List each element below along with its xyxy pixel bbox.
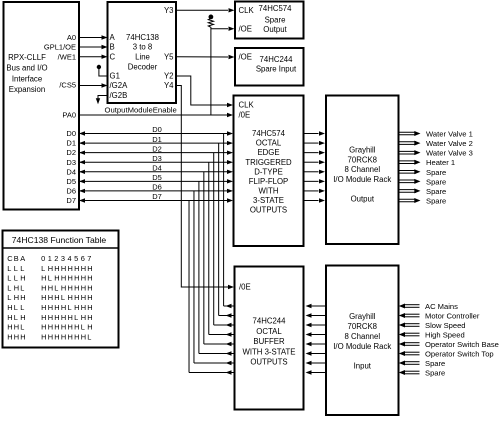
svg-text:/CS5: /CS5 — [59, 80, 76, 89]
svg-text:HHH: HHH — [7, 332, 25, 341]
svg-text:74HC244: 74HC244 — [260, 55, 294, 64]
svg-text:Slow Speed: Slow Speed — [425, 321, 466, 330]
svg-text:Spare: Spare — [425, 359, 445, 368]
svg-text:A0: A0 — [67, 33, 76, 42]
svg-text:OUTPUTS: OUTPUTS — [250, 358, 287, 367]
svg-text:Input: Input — [354, 362, 372, 371]
svg-text:D0: D0 — [152, 125, 162, 134]
svg-text:OCTAL: OCTAL — [256, 327, 282, 336]
svg-text:Y3: Y3 — [164, 6, 174, 15]
svg-text:BUFFER: BUFFER — [253, 337, 285, 346]
svg-text:Decoder: Decoder — [128, 62, 158, 71]
svg-text:70RCK8: 70RCK8 — [348, 155, 377, 164]
svg-text:Y5: Y5 — [164, 52, 174, 61]
svg-text:High Speed: High Speed — [425, 331, 465, 340]
svg-text:Grayhill: Grayhill — [349, 146, 376, 155]
svg-text:RPX-CLLF: RPX-CLLF — [8, 53, 46, 62]
svg-text:OUTPUTS: OUTPUTS — [250, 206, 287, 215]
svg-text:70RCK8: 70RCK8 — [348, 322, 377, 331]
svg-text:74HC138 Function Table: 74HC138 Function Table — [12, 235, 107, 245]
svg-text:EDGE: EDGE — [257, 148, 279, 157]
svg-text:Spare: Spare — [265, 15, 286, 24]
svg-text:TRIGGERED: TRIGGERED — [245, 158, 292, 167]
svg-text:CBA: CBA — [7, 254, 25, 263]
svg-text:LHHHHHHH: LHHHHHHH — [41, 264, 93, 273]
svg-text:Interface: Interface — [12, 74, 42, 83]
svg-text:8 Channel: 8 Channel — [345, 332, 381, 341]
svg-text:74HC574: 74HC574 — [252, 129, 286, 138]
svg-text:HHHHHLHH: HHHHHLHH — [41, 313, 93, 322]
svg-text:HHHHLHHH: HHHHLHHH — [41, 303, 93, 312]
svg-text:Y4: Y4 — [164, 81, 174, 90]
svg-text:8 Channel: 8 Channel — [345, 165, 381, 174]
svg-text:G1: G1 — [110, 72, 120, 81]
svg-text:74HC574: 74HC574 — [259, 4, 293, 13]
svg-text:Spare: Spare — [425, 369, 445, 378]
svg-text:/OE: /OE — [239, 53, 252, 62]
svg-text:OCTAL: OCTAL — [256, 139, 282, 148]
svg-text:/G2A: /G2A — [110, 81, 129, 90]
svg-text:D4: D4 — [66, 167, 76, 176]
svg-text:HLHHHHHH: HLHHHHHH — [41, 274, 93, 283]
svg-text:WITH 3-STATE: WITH 3-STATE — [243, 347, 296, 356]
svg-text:HLH: HLH — [7, 313, 25, 322]
svg-text:WITH: WITH — [259, 187, 279, 196]
svg-text:D4: D4 — [152, 163, 162, 172]
svg-text:OutputModuleEnable: OutputModuleEnable — [105, 106, 177, 115]
svg-text:/OE: /OE — [239, 24, 252, 33]
svg-text:/G2B: /G2B — [110, 91, 128, 100]
svg-text:CLK: CLK — [239, 6, 255, 15]
svg-text:D2: D2 — [152, 144, 162, 153]
svg-text:D1: D1 — [152, 135, 162, 144]
svg-text:Water Valve 3: Water Valve 3 — [426, 149, 473, 158]
svg-text:A: A — [110, 33, 116, 42]
svg-text:D6: D6 — [66, 187, 76, 196]
svg-text:FLIP-FLOP: FLIP-FLOP — [249, 177, 288, 186]
svg-text:Water Valve 1: Water Valve 1 — [426, 130, 473, 139]
svg-text:/WE1: /WE1 — [58, 52, 76, 61]
svg-text:Expansion: Expansion — [9, 85, 45, 94]
svg-text:B: B — [110, 43, 115, 52]
svg-text:D7: D7 — [152, 192, 162, 201]
svg-text:HHHHHHLH: HHHHHHLH — [41, 323, 93, 332]
svg-text:D-TYPE: D-TYPE — [254, 167, 283, 176]
svg-text:C: C — [110, 52, 116, 61]
svg-text:Output: Output — [263, 25, 287, 34]
svg-text:Operator Switch Top: Operator Switch Top — [425, 350, 494, 359]
svg-text:Spare Input: Spare Input — [256, 65, 297, 74]
svg-text:Spare: Spare — [426, 177, 446, 186]
svg-text:LHL: LHL — [7, 283, 24, 292]
svg-text:HHLHHHHH: HHLHHHHH — [41, 283, 93, 292]
svg-text:LLH: LLH — [7, 274, 25, 283]
svg-text:Water Valve 2: Water Valve 2 — [426, 139, 473, 148]
svg-text:Spare: Spare — [426, 187, 446, 196]
svg-text:AC Mains: AC Mains — [425, 302, 458, 311]
svg-text:LLL: LLL — [7, 264, 24, 273]
svg-text:LHH: LHH — [7, 293, 25, 302]
svg-text:D3: D3 — [152, 154, 162, 163]
svg-text:D5: D5 — [152, 173, 162, 182]
svg-text:HHL: HHL — [7, 323, 24, 332]
svg-text:74HC244: 74HC244 — [253, 317, 287, 326]
svg-text:Heater 1: Heater 1 — [426, 158, 455, 167]
svg-text:/0E: /0E — [239, 283, 251, 292]
svg-text:01234567: 01234567 — [41, 254, 91, 263]
svg-text:Spare: Spare — [426, 168, 446, 177]
svg-text:PA0: PA0 — [62, 111, 76, 120]
svg-text:HLL: HLL — [7, 303, 24, 312]
svg-text:Bus and I/O: Bus and I/O — [6, 64, 47, 73]
svg-text:D5: D5 — [66, 177, 76, 186]
svg-text:Motor Controller: Motor Controller — [425, 312, 480, 321]
svg-text:D6: D6 — [152, 183, 162, 192]
svg-text:Output: Output — [351, 195, 375, 204]
svg-text:CLK: CLK — [239, 101, 255, 110]
svg-text:3 to 8: 3 to 8 — [133, 43, 153, 52]
svg-text:D2: D2 — [66, 148, 76, 157]
svg-text:I/O Module Rack: I/O Module Rack — [333, 175, 391, 184]
svg-text:HHHLHHHH: HHHLHHHH — [41, 293, 93, 302]
svg-text:D1: D1 — [66, 139, 76, 148]
svg-text:D7: D7 — [66, 196, 76, 205]
svg-text:I/O Module Rack: I/O Module Rack — [333, 342, 391, 351]
svg-text:Y2: Y2 — [164, 72, 174, 81]
svg-text:/0E: /0E — [239, 111, 251, 120]
svg-text:D0: D0 — [66, 129, 76, 138]
svg-text:3-STATE: 3-STATE — [253, 196, 284, 205]
svg-text:Spare: Spare — [426, 196, 446, 205]
svg-text:HHHHHHHL: HHHHHHHL — [41, 332, 91, 341]
svg-text:GPL1/OE: GPL1/OE — [44, 43, 76, 52]
svg-text:Line: Line — [135, 52, 150, 61]
svg-text:Operator Switch Base: Operator Switch Base — [425, 340, 499, 349]
svg-text:74HC138: 74HC138 — [126, 33, 159, 42]
svg-text:Grayhill: Grayhill — [349, 312, 376, 321]
svg-text:D3: D3 — [66, 158, 76, 167]
